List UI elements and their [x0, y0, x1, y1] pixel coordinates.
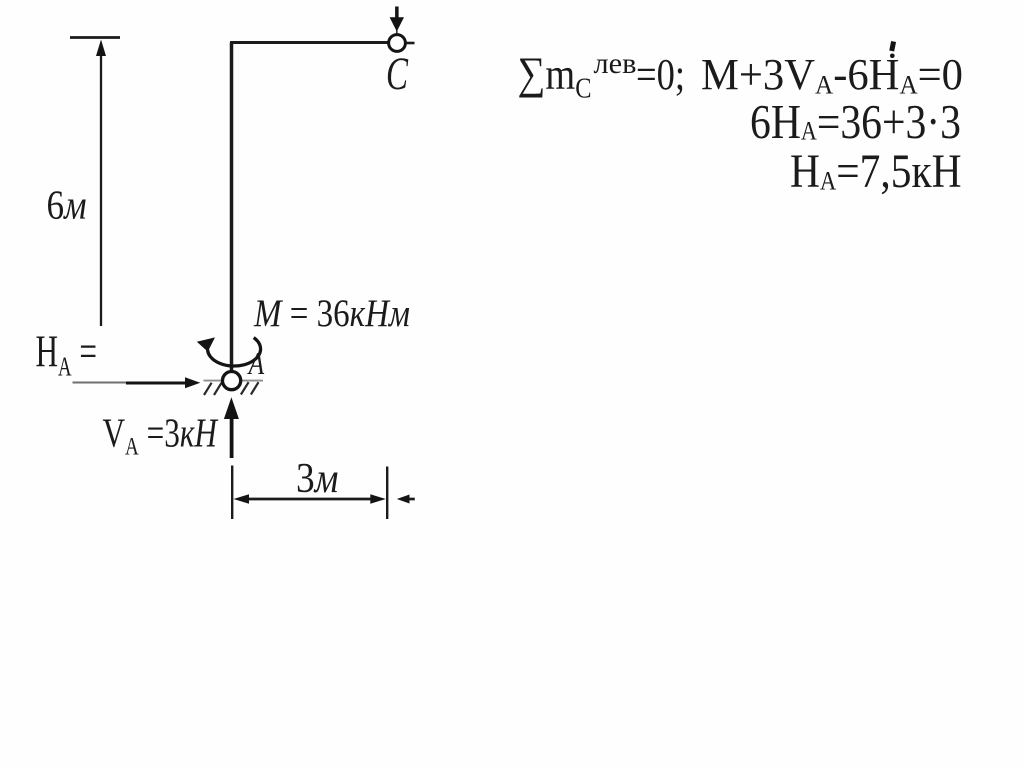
wire: frame vertical member	[230, 43, 234, 373]
svg-text:C: C	[386, 48, 408, 100]
svg-text:лев: лев	[594, 47, 637, 80]
force arrow H_A (rightward)	[126, 381, 189, 384]
svg-text:VA =3кН: VA =3кН	[103, 410, 219, 461]
moment arc arrowhead	[197, 337, 215, 351]
small left arrow right of the 3m tick	[403, 498, 415, 501]
load arrow at C (downward)	[390, 7, 404, 35]
wire: frame horizontal member	[230, 41, 389, 44]
svg-text:A: A	[247, 345, 264, 381]
dimension 3m: line with two arrowheads	[245, 498, 375, 501]
pin circle at A	[223, 372, 241, 390]
moment arc M at A	[208, 338, 261, 366]
svg-text:6HA=36+3·3: 6HA=36+3·3	[750, 94, 961, 149]
hinge C circle	[389, 35, 406, 52]
force arrow V_A (upward)	[230, 416, 234, 458]
dimension 3m: right tick	[386, 467, 388, 520]
blank line after H_A =	[73, 381, 127, 383]
svg-text:=0;: =0;	[636, 50, 685, 99]
ground line at support A	[204, 380, 264, 382]
svg-text:3м: 3м	[296, 456, 339, 502]
dimension 6m: vertical line with top arrowhead	[100, 52, 102, 326]
wire: stub right of hinge C	[406, 42, 415, 45]
svg-text:HA=7,5кН: HA=7,5кН	[790, 146, 962, 198]
svg-text:M = 36кНм: M = 36кНм	[253, 292, 410, 335]
hatch strokes of support A	[204, 382, 259, 395]
dimension 6m: top tick	[70, 36, 120, 39]
dimension 3m: left tick	[231, 466, 233, 520]
prime tick above H in line 1	[892, 42, 894, 52]
svg-text:6м: 6м	[47, 182, 87, 228]
